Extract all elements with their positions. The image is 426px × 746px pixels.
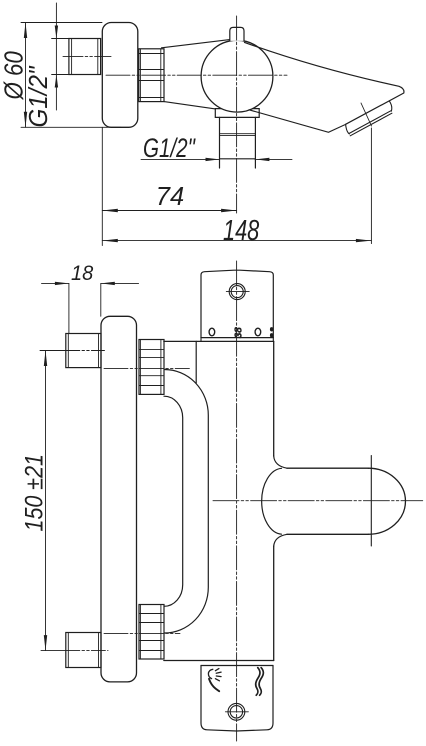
svg-text:150 ±21: 150 ±21 bbox=[20, 454, 48, 532]
svg-text:148: 148 bbox=[223, 215, 260, 247]
svg-text:38: 38 bbox=[233, 327, 244, 339]
svg-text:74: 74 bbox=[156, 183, 184, 211]
svg-text:G1/2": G1/2" bbox=[24, 65, 53, 127]
svg-text:G1/2": G1/2" bbox=[143, 135, 196, 164]
svg-text:18: 18 bbox=[71, 261, 94, 285]
